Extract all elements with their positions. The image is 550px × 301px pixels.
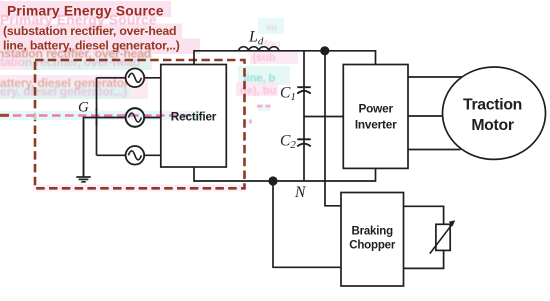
node dot on dc+ rail bbox=[320, 46, 329, 55]
wire: middle phase right redrawn bbox=[144, 117, 161, 119]
wire: middle phase right bbox=[144, 117, 161, 119]
svg-text:su: su bbox=[266, 22, 277, 33]
wire: rectifier top to dc+ rail bbox=[194, 51, 376, 65]
wire: motor phase c bbox=[408, 149, 461, 151]
wire: source bus vertical bbox=[96, 78, 98, 156]
svg-text:C1: C1 bbox=[280, 85, 296, 104]
power inverter box bbox=[343, 65, 408, 169]
ghost highlight row behind title line 3 bbox=[0, 39, 200, 55]
svg-text:G: G bbox=[78, 100, 89, 116]
svg-text:Motor: Motor bbox=[471, 117, 514, 134]
inductor Ld coil bbox=[239, 47, 279, 51]
ghost highlight row B bbox=[0, 75, 148, 99]
ghost pink fragments right of rectifier bbox=[258, 104, 270, 111]
rectifier left edge segment redrawn bbox=[160, 110, 162, 121]
wire: motor phase a bbox=[408, 76, 462, 78]
ghost pink patch mid2 bbox=[250, 50, 298, 64]
ac source G1 bbox=[126, 69, 145, 88]
wire: bottom phase left bbox=[97, 154, 126, 156]
traction motor circle bbox=[443, 67, 546, 159]
svg-text:Primary Energy Source: Primary Energy Source bbox=[7, 4, 164, 19]
ac source G2 bbox=[126, 108, 145, 127]
svg-text:line, battery, diesel generato: line, battery, diesel generator,..) bbox=[3, 39, 180, 53]
svg-text:(sub: (sub bbox=[253, 52, 277, 64]
svg-text:C2: C2 bbox=[280, 133, 296, 152]
ground symbol bbox=[76, 177, 90, 182]
wire: bottom phase right bbox=[144, 154, 161, 156]
ac source G2 symbol redrawn bbox=[126, 108, 145, 127]
wire: middle phase redrawn over ghost band bbox=[84, 118, 126, 177]
wire: rectifier bottom to dc- rail bbox=[194, 167, 376, 181]
ghost cyan patch mid3 bbox=[238, 66, 290, 85]
wire: top phase left bbox=[97, 77, 126, 79]
svg-text:Traction: Traction bbox=[463, 97, 522, 114]
wire: middle phase left with ground tap bbox=[84, 118, 126, 177]
ghost pink patch mid4 bbox=[236, 82, 278, 96]
capacitor C1 bbox=[297, 87, 310, 93]
svg-text:ery, diesel generator,..): ery, diesel generator,..) bbox=[0, 85, 127, 99]
wire: chopper to resistor top bbox=[404, 206, 444, 224]
svg-text:Inverter: Inverter bbox=[355, 118, 397, 132]
wire: motor phase b bbox=[408, 115, 444, 117]
wire: capacitor rail vertical bbox=[303, 51, 305, 181]
svg-text:N: N bbox=[294, 184, 307, 201]
ghost highlight row behind title line 1 bbox=[0, 1, 171, 17]
braking resistor R bbox=[430, 220, 455, 253]
node dot on dc- rail bbox=[268, 176, 277, 185]
svg-text:line, b: line, b bbox=[244, 73, 276, 85]
ghost cyan patch B bbox=[0, 87, 130, 99]
ghost highlight row A bbox=[0, 52, 152, 70]
wire: bus segment redrawn bbox=[96, 108, 98, 126]
ghost highlight row behind title line 2 bbox=[0, 24, 182, 39]
wire: capacitor midpoint to inverter bbox=[304, 116, 343, 118]
ghost cyan band at node G level bbox=[0, 111, 200, 120]
svg-text:Chopper: Chopper bbox=[349, 239, 396, 251]
svg-text:tation rectifier, over-head: tation rectifier, over-head bbox=[0, 55, 140, 69]
wire: top phase right bbox=[144, 77, 161, 79]
svg-text:Power: Power bbox=[358, 102, 393, 116]
wire: chopper feed rail vertical bbox=[325, 51, 341, 206]
svg-text:(substation rectifier, over-he: (substation rectifier, over-head bbox=[3, 24, 176, 38]
braking chopper box bbox=[341, 193, 404, 287]
ghost cyan patch A bbox=[22, 58, 150, 70]
wire: dc- to chopper bottom bbox=[273, 181, 341, 267]
ac source G3 bbox=[126, 146, 145, 165]
svg-text:Braking: Braking bbox=[351, 226, 393, 238]
ghost cyan patch mid1 bbox=[258, 18, 284, 34]
ghost pink dashed line at node G level bbox=[0, 114, 192, 117]
dashed boundary box of primary energy source bbox=[35, 60, 245, 188]
rectifier box bbox=[161, 65, 227, 168]
svg-text:Rectifier: Rectifier bbox=[171, 110, 217, 124]
wire: resistor bottom to chopper bbox=[404, 250, 444, 268]
ghost pink row under dashed box bottom bbox=[33, 185, 246, 192]
capacitor C2 bbox=[297, 139, 310, 146]
ghost dark red dash at left edge bbox=[0, 114, 9, 117]
